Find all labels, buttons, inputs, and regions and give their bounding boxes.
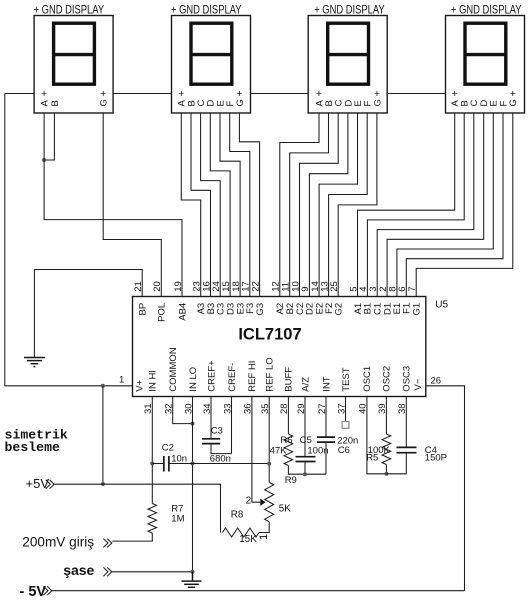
svg-text:OSC2: OSC2 xyxy=(382,366,393,392)
wire pin38 OSC3 down xyxy=(405,397,407,448)
svg-text:+ GND DISPLAY: + GND DISPLAY xyxy=(451,3,522,17)
wire pin35 REF LO down xyxy=(268,397,270,483)
wire C3 to CREF- xyxy=(211,444,232,454)
wire sase to IN LO ground xyxy=(112,571,193,573)
wire +5V rail xyxy=(54,484,220,532)
node R5 bottom junction xyxy=(384,472,388,476)
node sase/IN LO junction xyxy=(191,570,195,574)
node +5V rail junction xyxy=(101,482,105,486)
resistor R6 (47K) on BUFF xyxy=(284,434,293,466)
wire DS4 A to IC A1 xyxy=(358,113,455,297)
svg-text:+5V: +5V xyxy=(26,476,50,491)
wire DS4 D to IC D1 xyxy=(387,113,484,297)
svg-text:C2: C2 xyxy=(162,442,174,453)
svg-text:680n: 680n xyxy=(210,454,231,465)
wire DS1 left anode to left rail xyxy=(5,93,34,95)
svg-text:B: B xyxy=(50,100,61,106)
svg-text:2: 2 xyxy=(246,495,251,506)
svg-text:+ GND DISPLAY: + GND DISPLAY xyxy=(171,3,242,17)
svg-text:- 5V: - 5V xyxy=(20,584,47,600)
svg-text:200mV giriş: 200mV giriş xyxy=(22,535,94,550)
wire pin34 CREF+ down xyxy=(210,397,212,439)
svg-text:1: 1 xyxy=(258,534,270,540)
display DS4 7-segment figure xyxy=(465,23,506,84)
svg-text:şase: şase xyxy=(63,562,94,578)
wire pin31 IN HI down xyxy=(151,397,153,504)
svg-text:besleme: besleme xyxy=(5,440,60,455)
capacitor C3 (680n) xyxy=(202,439,220,444)
ground (BP) xyxy=(24,358,45,367)
wire pin40 OSC1 down xyxy=(367,397,387,474)
wire DS1-DS2 anode link xyxy=(113,93,171,95)
svg-text:+: + xyxy=(236,88,242,100)
wire DS2 C to IC C3 xyxy=(201,113,221,297)
svg-text:G1: G1 xyxy=(412,303,423,316)
resistor R5 (100K) on OSC2 xyxy=(382,434,391,465)
capacitor C6 (220n) xyxy=(317,437,335,442)
wire R7 to giris xyxy=(112,533,152,541)
svg-text:150P: 150P xyxy=(425,452,447,463)
potentiometer 5K body xyxy=(265,482,274,521)
wire DS4 B to IC B1 xyxy=(367,113,464,297)
wire left rail down to V+ (pin 1) xyxy=(5,94,133,386)
svg-text:20: 20 xyxy=(152,281,163,292)
svg-text:G2: G2 xyxy=(334,303,345,316)
wire DS3 F to IC F2 xyxy=(329,113,368,297)
svg-text:100n: 100n xyxy=(307,445,328,456)
svg-text:21: 21 xyxy=(133,281,144,292)
sase connector chevrons xyxy=(103,567,111,576)
wire DS4 E to IC E1 xyxy=(397,113,493,297)
wire C4 bottom to OSC net xyxy=(386,453,406,474)
svg-text:47K: 47K xyxy=(270,445,288,456)
node V+ junction xyxy=(101,384,105,388)
capacitor C4 (150P) xyxy=(397,447,417,452)
svg-text:25: 25 xyxy=(329,281,340,292)
svg-text:IN LO: IN LO xyxy=(188,367,199,392)
svg-text:COMMON: COMMON xyxy=(168,347,179,391)
display DS2 box xyxy=(172,16,251,114)
wire DS3 B to IC B2 xyxy=(290,113,329,297)
svg-text:+: + xyxy=(41,88,47,100)
svg-text:REF LO: REF LO xyxy=(265,357,276,391)
display DS1 7-segment figure xyxy=(54,23,95,84)
display DS4 box xyxy=(446,16,525,114)
node pin31/C2 junction xyxy=(150,462,154,466)
wire pin33 CREF- down xyxy=(231,397,233,454)
svg-text:+: + xyxy=(452,88,458,100)
svg-text:26: 26 xyxy=(431,375,442,386)
+5V connector chevrons xyxy=(46,480,54,489)
wire IC pin 21 BP to ground xyxy=(34,270,142,358)
svg-text:+: + xyxy=(178,88,184,100)
resistor R7 (1M) on IN HI xyxy=(148,504,157,534)
svg-text:V−: V− xyxy=(413,378,424,390)
capacitor C2 (10n) xyxy=(164,456,169,472)
svg-text:IN HI: IN HI xyxy=(148,370,159,392)
svg-text:+: + xyxy=(510,88,516,100)
wire C2 to REF LO xyxy=(169,463,269,465)
wire DS4 G to IC G1 xyxy=(416,113,513,297)
wire R5 bottom xyxy=(385,465,387,474)
wire DS3 C to IC C2 xyxy=(300,113,339,297)
svg-text:+: + xyxy=(316,88,322,100)
svg-text:POL: POL xyxy=(157,303,168,322)
svg-text:7: 7 xyxy=(407,287,418,292)
wire DS3-DS4 anode link xyxy=(387,93,445,95)
wire DS3 E to IC E2 xyxy=(319,113,357,297)
wire DS1 pin B down xyxy=(44,113,54,160)
wire pin37 TEST stub xyxy=(345,397,347,422)
wire R6 to A/Z net xyxy=(288,466,326,475)
svg-text:TEST: TEST xyxy=(341,367,352,391)
wire pin39 OSC2 down xyxy=(385,397,387,435)
svg-text:G: G xyxy=(235,99,246,106)
svg-text:OSC3: OSC3 xyxy=(402,366,413,392)
capacitor C5 (100n) xyxy=(296,457,316,462)
svg-text:22: 22 xyxy=(250,281,261,292)
test pad (unconnected) xyxy=(342,422,349,429)
wire DS2 A to IC A3 xyxy=(181,113,200,297)
resistor R8 (15K) xyxy=(223,528,260,537)
svg-text:19: 19 xyxy=(173,281,184,292)
wire C2 net xyxy=(152,463,163,465)
wire pin28 BUFF down xyxy=(287,397,289,435)
node A/B tie junction xyxy=(42,158,46,162)
wire DS3 G to IC G2 xyxy=(338,113,377,297)
wire DS2 B to IC B3 xyxy=(191,113,211,297)
svg-text:+: + xyxy=(374,88,380,100)
svg-text:REF HI: REF HI xyxy=(247,361,258,392)
wire -5V rail xyxy=(52,590,465,592)
wire DS2-DS3 anode link xyxy=(251,93,309,95)
wire C6 bottom xyxy=(325,442,327,474)
node IN LO / C2 wire crossing junction xyxy=(191,462,195,466)
wire DS2 F to IC F3 xyxy=(230,113,250,297)
wire DS1 pin A/B to IC pin 19 AB4 xyxy=(44,113,182,297)
wire DS4 F to IC F1 xyxy=(406,113,503,297)
svg-text:C3: C3 xyxy=(211,426,223,437)
wire DS3 D to IC D2 xyxy=(309,113,348,297)
svg-text:1: 1 xyxy=(119,374,124,385)
wire DS2 D to IC D3 xyxy=(210,113,230,297)
svg-text:15K: 15K xyxy=(239,534,257,545)
wire DS2 E to IC E3 xyxy=(220,113,240,297)
svg-text:+ GND DISPLAY: + GND DISPLAY xyxy=(34,3,105,17)
svg-text:OSC1: OSC1 xyxy=(362,366,373,392)
svg-text:+: + xyxy=(100,88,106,100)
wire pin30 IN LO down to sase xyxy=(192,397,194,572)
wire pin 26 V- to -5V rail xyxy=(426,386,465,591)
node C5 junction xyxy=(303,472,307,476)
svg-text:AB4: AB4 xyxy=(177,303,188,321)
svg-text:BUFF: BUFF xyxy=(284,367,295,392)
svg-text:10n: 10n xyxy=(171,453,187,464)
wire pot bottom xyxy=(259,522,269,533)
wire V+ junction to +5V rail xyxy=(102,386,104,484)
display DS3 7-segment figure xyxy=(328,23,369,84)
node COMMON/IN LO junction xyxy=(191,422,195,426)
wire DS3 A to IC A2 xyxy=(280,113,319,297)
svg-text:R5: R5 xyxy=(366,452,378,463)
wire DS4 C to IC C1 xyxy=(377,113,474,297)
svg-text:1M: 1M xyxy=(171,513,184,524)
svg-text:R8: R8 xyxy=(231,509,244,520)
svg-text:G3: G3 xyxy=(255,303,266,316)
svg-text:G: G xyxy=(508,99,519,106)
node REF LO / C2 net junction xyxy=(267,462,271,466)
pot wiper arrow xyxy=(260,499,265,506)
svg-text:+ GND DISPLAY: + GND DISPLAY xyxy=(314,3,385,17)
display DS2 7-segment figure xyxy=(191,23,232,84)
wire C5 bottom xyxy=(304,462,306,475)
svg-text:ICL7107: ICL7107 xyxy=(238,326,301,344)
200mV connector chevrons xyxy=(103,539,111,548)
wire DS2 G to IC G3 xyxy=(239,113,259,297)
svg-text:BP: BP xyxy=(138,303,149,316)
display DS3 box xyxy=(308,16,387,114)
svg-text:G: G xyxy=(372,99,383,106)
svg-text:CREF+: CREF+ xyxy=(206,360,217,392)
wire pin29 A/Z down xyxy=(304,397,306,457)
wire pin36 REF HI to wiper xyxy=(252,397,260,503)
svg-text:U5: U5 xyxy=(435,299,448,310)
svg-text:INT: INT xyxy=(321,376,332,392)
wire pin27 INT down xyxy=(325,397,327,438)
svg-text:C6: C6 xyxy=(338,445,350,456)
svg-text:CREF-: CREF- xyxy=(227,363,238,392)
svg-text:V+: V+ xyxy=(135,379,146,391)
ground (sase) xyxy=(182,572,202,588)
display DS1 box xyxy=(34,16,113,114)
svg-text:G: G xyxy=(99,99,110,106)
wire pin32 COMMON strap to IN LO xyxy=(173,397,193,424)
svg-text:R9: R9 xyxy=(285,475,297,486)
svg-text:A/Z: A/Z xyxy=(300,377,311,392)
svg-text:5K: 5K xyxy=(279,504,291,515)
op-amp/IC U5 ICL7107 body xyxy=(133,297,426,397)
wire DS1 pin G to IC pin 20 POL xyxy=(103,113,161,297)
-5V connector chevrons xyxy=(43,586,51,595)
